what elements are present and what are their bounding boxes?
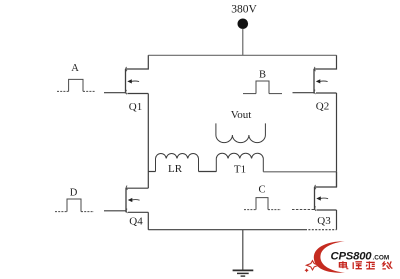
wire Q3 gate: [292, 209, 315, 211]
svg-text:LR: LR: [168, 163, 183, 175]
wire ground stem: [242, 230, 244, 270]
glyph xian: [382, 261, 392, 269]
svg-text:B: B: [259, 70, 266, 81]
logo star big: [306, 261, 318, 270]
wire Q1 gate: [104, 92, 126, 94]
wire Q4 gate: [104, 210, 126, 212]
svg-text:C: C: [258, 185, 265, 196]
pulse B waveform: [243, 81, 282, 94]
transformer T1 primary winding: [216, 153, 263, 172]
wire Q4 drain lead: [126, 187, 148, 189]
wire bottom rail dotted right part: [305, 229, 337, 231]
svg-text:Q2: Q2: [316, 101, 329, 113]
node 380V dot: [238, 19, 249, 30]
transistor Q1: [126, 67, 149, 94]
wire LR to T1: [199, 171, 217, 173]
wire Q2 gate: [293, 92, 315, 94]
wire T1 to right leg: [263, 171, 336, 173]
wire Q4 source drop: [147, 212, 149, 229]
ground: [233, 270, 254, 276]
svg-text:Vout: Vout: [231, 109, 252, 121]
svg-text:.COM: .COM: [373, 254, 390, 261]
transistor Q3: [315, 185, 337, 211]
svg-text:T1: T1: [234, 164, 246, 176]
inductor LR: [156, 153, 199, 171]
glyph dian: [339, 261, 348, 269]
pulse D waveform: [55, 199, 94, 212]
svg-text:D: D: [70, 188, 78, 199]
svg-text:Q3: Q3: [317, 215, 331, 227]
svg-text:Q4: Q4: [129, 216, 143, 228]
wire Q1 drain lead: [126, 55, 149, 69]
wire bottom rail: [148, 229, 305, 231]
svg-text:A: A: [71, 63, 79, 74]
wire left leg: [147, 94, 149, 189]
wire Q3 source drop: [336, 210, 338, 230]
pulse C waveform: [244, 198, 281, 210]
svg-text:Q1: Q1: [129, 101, 142, 113]
svg-text:380V: 380V: [231, 3, 257, 15]
pulse A waveform: [57, 79, 95, 91]
wire 380V stem: [242, 29, 244, 56]
wire LR tap: [148, 171, 155, 173]
logo CPS800 swoosh: [314, 241, 345, 272]
svg-text:CPS800: CPS800: [331, 251, 373, 263]
transistor Q2: [314, 67, 337, 94]
glyph zai: [366, 261, 375, 269]
transistor Q4: [126, 186, 148, 213]
glyph yuan: [353, 262, 362, 269]
transformer T1 secondary winding: [216, 123, 266, 142]
logo star small: [305, 268, 309, 272]
wire Q2 drain lead: [314, 55, 337, 69]
wire right leg: [336, 93, 338, 187]
wire top rail: [148, 54, 336, 56]
wire Q3 drain lead: [315, 172, 337, 187]
logo text 电源在线 (drawn glyphs): [339, 261, 392, 269]
